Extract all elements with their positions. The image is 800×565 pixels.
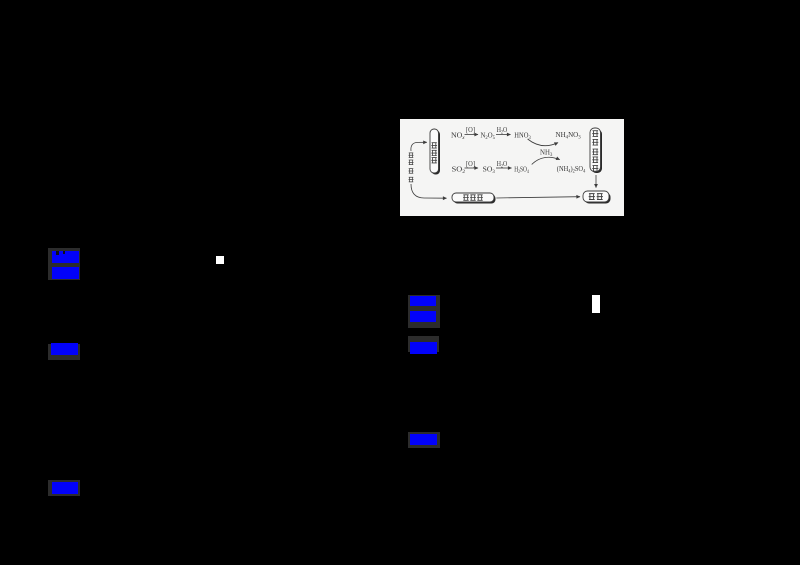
highlight block F: [48, 480, 80, 496]
svg-text:(NH4)2SO4: (NH4)2SO4: [557, 164, 586, 175]
arrow fuel to particles box: [411, 184, 447, 198]
box 气体物: [430, 129, 440, 175]
box 无机颗粒物: [590, 128, 602, 173]
svg-text:[O]: [O]: [466, 160, 475, 168]
arc H2SO4 to (NH4)2SO4: [532, 157, 560, 164]
arrow fuel to gas box: [411, 142, 427, 151]
svg-text:[O]: [O]: [466, 126, 475, 134]
white marker bar: [592, 295, 600, 313]
label 燃料燃烧 (vertical): [409, 153, 414, 182]
svg-text:H2SO4: H2SO4: [514, 165, 529, 176]
svg-text:NH4NO3: NH4NO3: [556, 130, 582, 141]
highlight block B: [48, 344, 80, 360]
box 雾霾: [583, 191, 611, 204]
box 颗粒物: [452, 193, 496, 204]
highlight block D: [408, 336, 439, 352]
arrow particles to smog: [496, 197, 580, 198]
arrow NOx to N2O5: [465, 134, 479, 136]
arrow SO3 to H2SO4: [496, 167, 512, 169]
arc HNO3 to NH4NO3: [528, 139, 558, 146]
arrow SO2 to SO3: [465, 167, 479, 169]
arrow inorganic particles down to smog: [595, 175, 597, 188]
diagram panel: [400, 119, 624, 216]
white marker square: [216, 256, 224, 264]
highlight block C: [408, 295, 440, 328]
highlight block A: [48, 248, 80, 280]
highlight block E: [408, 432, 440, 448]
arrow N2O5 to HNO3: [496, 134, 511, 136]
